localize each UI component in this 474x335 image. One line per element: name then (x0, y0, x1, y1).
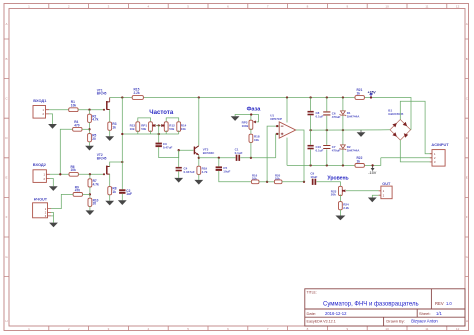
svg-text:F: F (466, 215, 468, 219)
svg-text:Сумматор, ФНЧ и фазовращатель: Сумматор, ФНЧ и фазовращатель (323, 302, 419, 308)
wire VT1 drain to rail (109, 98, 111, 102)
svg-text:Bizyaev Anton: Bizyaev Anton (411, 319, 438, 324)
ground at R5 (85, 146, 94, 151)
svg-text:R242.2k: R242.2k (343, 202, 349, 209)
capacitor C3 (156, 143, 162, 145)
wire VHOD2 pin2 to ground (50, 179, 53, 187)
wire +15V top rail (110, 97, 133, 99)
svg-text:10: 10 (385, 5, 389, 9)
resistor R6 (69, 172, 78, 176)
ground at NCH (49, 223, 58, 228)
svg-text:Sheet:: Sheet: (419, 311, 431, 316)
wire VHOD1 pin2 to ground (49, 114, 53, 124)
ground at C2 (118, 200, 127, 205)
svg-text:11: 11 (425, 5, 428, 9)
wire RP3 top to ground (235, 115, 251, 121)
potentiometer RP2 (164, 122, 168, 132)
wire C2 to ground (121, 194, 123, 201)
svg-text:OUT: OUT (382, 182, 391, 186)
wire R24 to ground (339, 210, 341, 216)
wire R5 to ground (89, 142, 91, 146)
resistor R4 (73, 127, 82, 131)
wire U1 minus input (267, 126, 279, 182)
transistor VT2 BF245 (106, 166, 108, 175)
connector NCH (3pin) (33, 203, 48, 218)
wire emitter to C5 (218, 158, 220, 167)
ground at R8 (105, 201, 114, 206)
wire wiper link (156, 125, 161, 127)
wire R3 to ground (109, 130, 111, 136)
wire R9 left to NCH connector (51, 194, 73, 208)
connector OUT (381, 186, 392, 199)
wire R7 bottom junction (89, 187, 91, 198)
bridge rectifier B1 (390, 120, 411, 141)
svg-text:H: H (466, 319, 468, 323)
wire junction to C4 (178, 150, 180, 167)
capacitor C8 (310, 98, 312, 111)
wire drain rail vertical to C2 (121, 98, 123, 190)
resistor R1 (69, 108, 78, 112)
capacitor C4 (176, 167, 182, 169)
wire U1 plus input (276, 134, 280, 158)
ground at C4 (174, 178, 183, 183)
svg-text:2016-12-12: 2016-12-12 (325, 311, 347, 316)
wire bridge plus to rail (410, 129, 412, 131)
resistor R9 (73, 193, 82, 197)
resistor R24 (339, 202, 343, 210)
wire -15V bottom rail (287, 164, 355, 166)
wire VT1 source to R3 (109, 110, 111, 123)
svg-text:+15V: +15V (368, 90, 377, 94)
wire NCH pins 2,3 to ground (51, 213, 54, 223)
resistor R2 (89, 110, 91, 115)
resistor R7 (89, 174, 91, 179)
wire C1 to plus input riser (240, 157, 275, 159)
wire C5 down to R16 wire (219, 171, 252, 182)
resistor R13 (136, 122, 140, 132)
resistor R18 (249, 134, 253, 142)
svg-text:R2320k: R2320k (331, 189, 337, 196)
capacitor C1 (series) (236, 155, 238, 161)
wire C4 to ground (178, 171, 180, 178)
svg-text:Частота: Частота (149, 109, 174, 116)
wire R10 to ground (89, 206, 91, 210)
wire VT2 source to R8 (109, 174, 111, 187)
resistor R14 (177, 122, 181, 132)
wire U1 V- (286, 138, 288, 166)
svg-text:R1250k: R1250k (169, 124, 175, 131)
wire R20 to output node (282, 181, 304, 183)
wire VHOD2 pin1 to R6 (50, 173, 69, 175)
op-amp U1 OP07CP (279, 122, 296, 138)
resistor R22 (355, 164, 364, 168)
zener diode D1 (342, 98, 344, 111)
svg-text:B: B (466, 57, 468, 61)
wire emitter node to C1 (199, 157, 236, 159)
wire R1 to VT1 gate (78, 109, 104, 111)
svg-text:Уровень: Уровень (327, 176, 348, 182)
resistor R10 (88, 198, 92, 206)
wire C9 to RP23 (316, 182, 340, 187)
capacitor C5 (216, 166, 222, 168)
ground at R19 (194, 180, 203, 185)
wire pots top pair 2 (166, 118, 179, 122)
capacitor C2 (119, 189, 125, 191)
svg-text:EasyEDA V3.12.1: EasyEDA V3.12.1 (307, 319, 336, 323)
wire R4 left to VHOD2 line (60, 129, 72, 174)
wire OUT pin2 to ground (372, 195, 378, 197)
resistor R20 (274, 180, 282, 184)
svg-text:R1310k: R1310k (130, 124, 136, 131)
potentiometer RP3 (249, 120, 253, 129)
svg-text:A: A (466, 22, 468, 26)
svg-text:11: 11 (425, 327, 428, 331)
wire pots top pair 1 (138, 118, 151, 122)
connector VHOD1 (33, 106, 46, 119)
capacitor C7 (326, 130, 328, 145)
capacitor C10 (310, 130, 312, 145)
wire wiper to C3 (158, 126, 160, 143)
svg-text:10: 10 (385, 327, 389, 331)
wire R18 to plus node (250, 142, 252, 157)
svg-text:ВХОД2: ВХОД2 (33, 162, 47, 167)
resistor R19 (197, 166, 201, 174)
wire C3 down to VT3 base (159, 147, 194, 158)
wire R19 to ground (198, 174, 200, 180)
wire U1 output (296, 130, 304, 182)
wire R8 to ground (109, 195, 111, 201)
svg-text:12: 12 (456, 327, 460, 331)
svg-text:REV 1.0: REV 1.0 (435, 301, 452, 306)
svg-text:TITLE:: TITLE: (307, 291, 317, 295)
svg-text:E: E (5, 176, 7, 180)
svg-text:A: A (5, 22, 7, 26)
title block (305, 289, 465, 326)
wire rail to VT3 collector (198, 98, 200, 146)
ground at R24 (335, 216, 345, 221)
svg-text:F: F (6, 215, 8, 219)
transistor VT1 BF245 (106, 101, 108, 110)
ground at VHOD2 (49, 186, 58, 191)
svg-text:E: E (466, 176, 468, 180)
svg-text:ВХОД1: ВХОД1 (33, 98, 47, 103)
wire U1 V+ (286, 98, 288, 123)
resistor R5 (88, 134, 92, 142)
svg-text:Date:: Date: (307, 311, 317, 316)
svg-text:Фаза: Фаза (247, 106, 262, 112)
resistor R8 (108, 187, 112, 195)
wire VHOD1 pin1 to R1 (49, 109, 69, 111)
ground at R10 (86, 210, 95, 215)
wire RP3 to R18 (250, 128, 252, 134)
connector ACINPUT (432, 150, 445, 167)
net flag +15V (370, 95, 372, 98)
connector VHOD2 (33, 170, 46, 183)
wire R16 to R20 (259, 181, 274, 183)
capacitor C9 (series) (312, 179, 314, 185)
wire R9 right (83, 193, 90, 195)
junction dots on +15V rail (121, 96, 123, 98)
wire -15V to ACINPUT pin2 (381, 157, 432, 159)
transistor VT3 BC546C (193, 147, 195, 155)
svg-text:R194.7k: R194.7k (202, 167, 208, 174)
ground at R3 (105, 136, 114, 141)
svg-text:H: H (5, 319, 7, 323)
resistor R21 (355, 96, 364, 100)
wire bridge ac1 top to ACINPUT pin1 (400, 101, 432, 153)
wiper arrows RP1 RP2 (153, 124, 156, 127)
potentiometer RP1 (149, 122, 153, 132)
wire R23 wiper to OUT (346, 190, 379, 192)
wire VT2 drain up and right (110, 162, 123, 167)
svg-text:НЧОUT: НЧОUT (34, 198, 48, 202)
wire RP3 wiper link (251, 115, 259, 122)
zener diode D2 (342, 130, 344, 145)
resistor R15 (132, 96, 143, 100)
resistor R3 (108, 122, 112, 130)
net flag -15V (372, 165, 374, 168)
wire R4 right (82, 128, 90, 130)
svg-text:12: 12 (456, 5, 460, 9)
ground at RP3 (231, 116, 240, 121)
svg-text:ACINPUT: ACINPUT (431, 142, 449, 147)
wire ground mid rail (311, 129, 391, 131)
potentiometer R23 (339, 186, 343, 195)
wire R6 to VT2 gate (78, 173, 104, 175)
svg-text:R1410k: R1410k (181, 124, 187, 131)
wire R23 to R24 (339, 195, 341, 202)
wire bridge minus down to ACINPUT pin3 (400, 140, 432, 162)
svg-text:Drawn By:: Drawn By: (386, 319, 404, 324)
svg-text:R1810k: R1810k (254, 135, 260, 142)
ground at OUT (368, 198, 377, 203)
wire VT3 emitter down (198, 155, 200, 166)
wire pots bottom rail (137, 130, 139, 134)
ground at VHOD1 (48, 124, 57, 129)
resistor R16 (251, 180, 259, 184)
svg-text:R152.2k: R152.2k (134, 88, 140, 95)
ground symbol on mid rail (360, 130, 362, 132)
svg-text:1/1: 1/1 (436, 311, 442, 316)
capacitor C6 (326, 98, 328, 112)
svg-text:-15V: -15V (368, 171, 376, 175)
svg-text:B: B (5, 57, 7, 61)
wire R2 bottom junction (89, 122, 91, 133)
